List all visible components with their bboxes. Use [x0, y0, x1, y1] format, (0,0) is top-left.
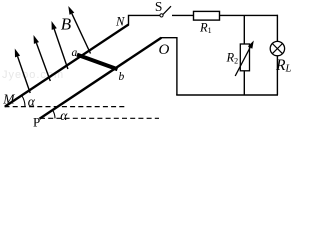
- wire R1 to right corner: [220, 14, 279, 16]
- wire R2 to bottom: [243, 71, 245, 95]
- svg-text:M: M: [2, 91, 15, 106]
- rail P-O (lower inclined rail): [40, 38, 162, 119]
- svg-text:a: a: [72, 47, 78, 59]
- rail M-N (upper inclined rail): [5, 25, 128, 107]
- field arrow B4: [68, 6, 90, 54]
- svg-text:α: α: [60, 108, 68, 123]
- dashed horizontal line at P: [40, 117, 159, 119]
- lamp RL circle: [270, 41, 284, 55]
- field arrow B2: [34, 35, 51, 81]
- conducting rod ab: [77, 55, 118, 70]
- wire junction down to R2: [243, 15, 245, 44]
- rheostat R2 box: [240, 44, 249, 71]
- svg-text:P: P: [33, 114, 40, 128]
- svg-text:R1: R1: [199, 21, 212, 36]
- angle arc alpha at P: [52, 110, 55, 119]
- svg-text:α: α: [28, 94, 36, 109]
- switch S pivot dot: [160, 14, 163, 17]
- resistor R1 box: [194, 11, 220, 20]
- wire lamp to bottom: [276, 56, 278, 95]
- angle arc alpha at M: [22, 96, 25, 107]
- wire switch to R1: [172, 14, 194, 16]
- switch S blade: [163, 6, 171, 14]
- svg-text:Jyeoo.com: Jyeoo.com: [2, 69, 64, 81]
- wire O corner: [161, 38, 177, 95]
- right wire down to lamp: [276, 15, 278, 42]
- svg-text:O: O: [159, 42, 170, 58]
- svg-text:N: N: [115, 14, 125, 28]
- svg-text:S: S: [155, 0, 163, 14]
- field arrow B3: [52, 21, 68, 69]
- svg-text:R2: R2: [226, 51, 239, 66]
- wire N corner up: [129, 15, 160, 25]
- physics diagram: inclined rails with rod ab and circuit: [0, 0, 293, 128]
- field arrow B1: [15, 49, 30, 94]
- svg-text:B: B: [61, 15, 72, 34]
- rheostat R2 arrow: [235, 41, 254, 77]
- bottom wire: [176, 94, 278, 96]
- svg-text:RL: RL: [275, 57, 291, 75]
- dashed horizontal line at M: [5, 106, 127, 108]
- svg-text:b: b: [119, 71, 125, 83]
- lamp RL cross: [272, 44, 282, 54]
